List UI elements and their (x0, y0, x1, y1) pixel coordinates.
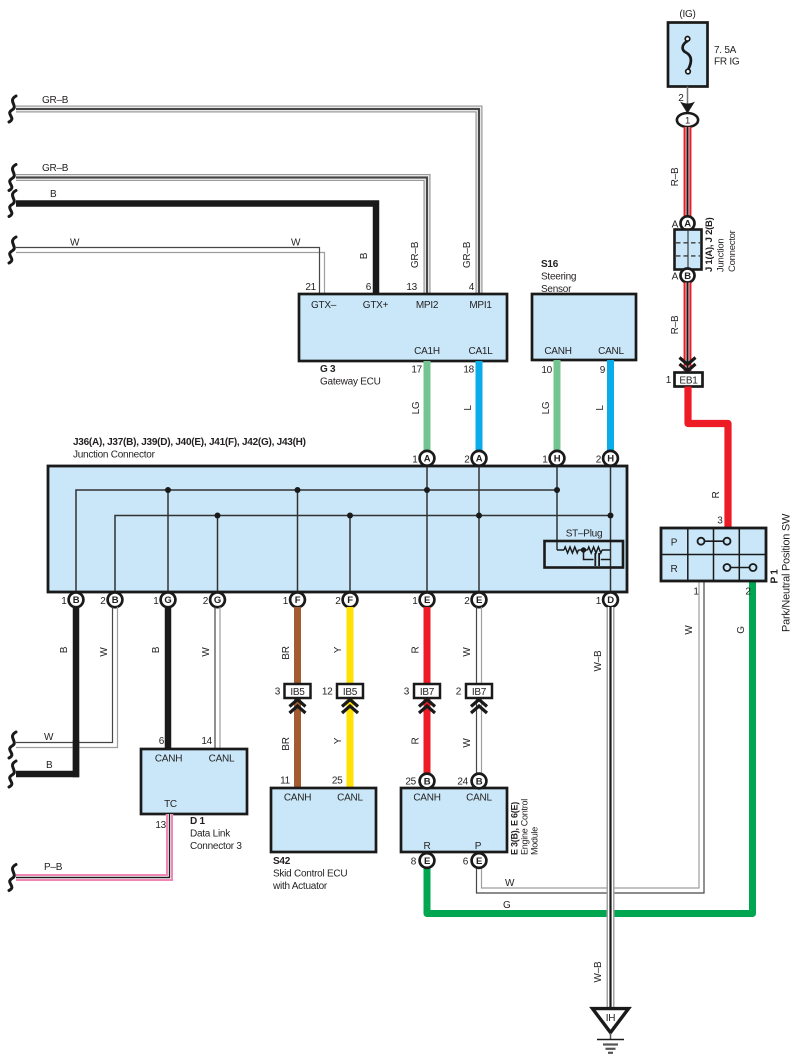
svg-text:8: 8 (411, 857, 417, 868)
svg-text:R: R (671, 564, 678, 575)
svg-text:7. 5A: 7. 5A (714, 45, 737, 56)
svg-text:A: A (476, 454, 483, 465)
svg-text:G: G (164, 595, 171, 606)
svg-text:B: B (359, 252, 370, 259)
svg-text:GTX+: GTX+ (363, 300, 389, 311)
svg-text:G: G (736, 626, 747, 634)
svg-text:10: 10 (541, 365, 552, 376)
svg-text:A: A (684, 219, 691, 230)
svg-text:Connector: Connector (727, 230, 738, 272)
svg-text:1: 1 (412, 596, 418, 607)
svg-text:IH: IH (606, 1013, 616, 1024)
svg-text:11: 11 (280, 776, 291, 787)
svg-text:Data Link: Data Link (190, 829, 231, 840)
svg-text:1: 1 (685, 116, 690, 127)
svg-text:S16: S16 (541, 259, 559, 270)
svg-text:12: 12 (322, 687, 333, 698)
svg-text:1: 1 (693, 587, 699, 598)
svg-text:2: 2 (464, 596, 470, 607)
svg-text:2: 2 (456, 687, 462, 698)
svg-text:IB5: IB5 (343, 687, 358, 698)
svg-text:W: W (462, 738, 473, 748)
svg-text:TC: TC (164, 799, 177, 810)
svg-text:B: B (112, 595, 119, 606)
svg-text:B: B (73, 595, 80, 606)
svg-text:25: 25 (332, 776, 343, 787)
svg-text:W: W (462, 647, 473, 657)
svg-text:18: 18 (463, 365, 474, 376)
svg-text:21: 21 (305, 282, 316, 293)
svg-text:W: W (201, 647, 212, 657)
svg-text:MPI1: MPI1 (469, 300, 492, 311)
svg-text:2: 2 (100, 596, 106, 607)
svg-text:W: W (99, 647, 110, 657)
svg-text:FR IG: FR IG (714, 57, 740, 68)
svg-text:GR–B: GR–B (410, 241, 421, 268)
svg-text:CANL: CANL (337, 793, 363, 804)
svg-text:13: 13 (406, 282, 417, 293)
svg-text:3: 3 (275, 687, 281, 698)
svg-text:CA1H: CA1H (414, 346, 440, 357)
svg-text:LG: LG (541, 401, 552, 414)
svg-text:17: 17 (411, 365, 422, 376)
svg-text:CANL: CANL (598, 346, 624, 357)
svg-text:CANL: CANL (466, 793, 492, 804)
svg-text:1: 1 (61, 596, 67, 607)
svg-text:BR: BR (281, 646, 292, 659)
svg-text:IB7: IB7 (472, 687, 487, 698)
svg-text:A: A (672, 272, 679, 283)
svg-text:B: B (59, 646, 70, 653)
svg-text:B: B (684, 271, 691, 282)
svg-text:G 3: G 3 (320, 364, 336, 375)
svg-text:CA1L: CA1L (468, 346, 493, 357)
svg-text:W: W (70, 238, 80, 249)
svg-text:2: 2 (745, 587, 751, 598)
svg-text:P: P (671, 538, 678, 549)
svg-text:G: G (214, 595, 221, 606)
svg-text:MPI2: MPI2 (416, 300, 439, 311)
svg-text:J 1(A), J 2(B): J 1(A), J 2(B) (704, 217, 715, 272)
svg-text:ST–Plug: ST–Plug (566, 529, 603, 540)
svg-text:Module: Module (530, 827, 540, 855)
svg-text:1: 1 (283, 596, 289, 607)
svg-text:1: 1 (542, 455, 548, 466)
svg-text:R: R (411, 646, 422, 653)
svg-text:R: R (711, 491, 722, 498)
svg-text:Junction Connector: Junction Connector (73, 450, 156, 461)
svg-text:3: 3 (717, 516, 723, 527)
svg-text:B: B (424, 776, 431, 787)
svg-text:2: 2 (464, 455, 470, 466)
svg-text:Engine Control: Engine Control (520, 799, 530, 855)
svg-text:E: E (476, 595, 482, 606)
svg-text:Steering: Steering (541, 272, 576, 283)
svg-text:CANL: CANL (209, 754, 235, 765)
svg-text:1: 1 (596, 596, 602, 607)
svg-text:Y: Y (333, 646, 344, 653)
svg-text:with Actuator: with Actuator (272, 881, 328, 892)
svg-text:6: 6 (159, 736, 165, 747)
svg-text:25: 25 (405, 777, 416, 788)
svg-text:E: E (424, 856, 430, 867)
svg-text:W: W (44, 732, 54, 743)
svg-text:BR: BR (281, 737, 292, 750)
svg-text:2: 2 (596, 455, 602, 466)
svg-text:J36(A), J37(B), J39(D), J40(E): J36(A), J37(B), J39(D), J40(E), J41(F), … (73, 437, 306, 448)
svg-text:F: F (295, 595, 301, 606)
svg-text:B: B (151, 646, 162, 653)
svg-text:B: B (476, 776, 483, 787)
svg-text:W–B: W–B (593, 650, 604, 672)
svg-text:E: E (424, 595, 430, 606)
svg-text:CANH: CANH (413, 793, 440, 804)
svg-text:6: 6 (366, 282, 372, 293)
svg-text:GR–B: GR–B (42, 163, 69, 174)
svg-text:CANH: CANH (544, 346, 571, 357)
svg-text:EB1: EB1 (679, 376, 698, 387)
svg-text:D 1: D 1 (190, 816, 206, 827)
svg-text:L: L (595, 405, 606, 411)
svg-text:R: R (411, 737, 422, 744)
svg-text:LG: LG (411, 401, 422, 414)
svg-text:13: 13 (155, 820, 166, 831)
svg-text:CANH: CANH (155, 754, 182, 765)
svg-text:4: 4 (469, 282, 475, 293)
svg-text:E: E (476, 856, 482, 867)
svg-text:S42: S42 (273, 856, 291, 867)
svg-text:H: H (554, 454, 561, 465)
svg-text:B: B (46, 760, 53, 771)
svg-text:1: 1 (666, 375, 672, 386)
svg-text:E 3(B), E 6(E): E 3(B), E 6(E) (510, 802, 520, 855)
svg-text:R: R (424, 841, 431, 852)
svg-text:Gateway ECU: Gateway ECU (320, 377, 381, 388)
svg-text:L: L (463, 405, 474, 411)
svg-text:(IG): (IG) (679, 9, 695, 20)
svg-text:P: P (475, 841, 482, 852)
svg-text:D: D (607, 595, 614, 606)
svg-text:2: 2 (203, 596, 209, 607)
svg-text:A: A (424, 454, 431, 465)
svg-text:Junction: Junction (716, 239, 727, 272)
svg-text:W: W (291, 238, 301, 249)
svg-text:W: W (684, 625, 695, 635)
svg-text:Y: Y (333, 737, 344, 744)
svg-text:R–B: R–B (670, 315, 681, 334)
svg-text:14: 14 (201, 736, 212, 747)
svg-text:IB7: IB7 (420, 687, 435, 698)
svg-text:P 1: P 1 (770, 569, 781, 584)
svg-text:6: 6 (463, 857, 469, 868)
svg-text:Connector 3: Connector 3 (190, 841, 242, 852)
svg-text:9: 9 (600, 365, 606, 376)
svg-text:Skid Control ECU: Skid Control ECU (273, 869, 347, 880)
svg-text:GTX–: GTX– (311, 300, 337, 311)
svg-text:1: 1 (412, 455, 418, 466)
svg-text:24: 24 (457, 777, 468, 788)
svg-text:G: G (503, 900, 511, 911)
svg-text:2: 2 (335, 596, 341, 607)
svg-text:B: B (50, 189, 57, 200)
svg-text:F: F (347, 595, 353, 606)
svg-text:R–B: R–B (670, 167, 681, 186)
svg-text:GR–B: GR–B (42, 95, 69, 106)
svg-text:Park/Neutral Position SW: Park/Neutral Position SW (781, 513, 793, 632)
svg-text:P–B: P–B (44, 862, 63, 873)
svg-text:W–B: W–B (593, 961, 604, 983)
svg-text:CANH: CANH (284, 793, 311, 804)
svg-text:GR–B: GR–B (462, 241, 473, 268)
svg-text:1: 1 (153, 596, 159, 607)
svg-text:3: 3 (404, 687, 410, 698)
svg-text:IB5: IB5 (290, 687, 305, 698)
svg-text:Sensor: Sensor (541, 284, 572, 295)
svg-text:W: W (505, 878, 515, 889)
svg-text:H: H (607, 454, 614, 465)
